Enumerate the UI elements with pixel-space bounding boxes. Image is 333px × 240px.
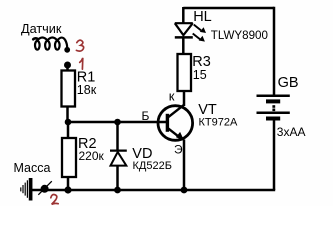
diode VD КД522Б	[110, 151, 127, 166]
svg-text:220к: 220к	[79, 149, 105, 163]
red handwritten 3	[76, 40, 83, 51]
node junction dot R1/R2/base	[65, 119, 72, 126]
inductor L sensor coil	[33, 38, 67, 50]
svg-text:3хАА: 3хАА	[277, 125, 306, 139]
wire battery bottom stub	[273, 120, 276, 190]
node junction dot VD bottom	[114, 187, 121, 194]
wire R2 top stub	[67, 122, 70, 138]
node junction dot emitter bottom	[181, 187, 188, 194]
wire VD bottom stub	[116, 166, 119, 190]
red handwritten 1	[80, 58, 83, 69]
svg-text:к: к	[169, 88, 175, 103]
svg-text:Э: Э	[174, 143, 183, 157]
svg-text:Датчик: Датчик	[21, 22, 62, 36]
wire R2 bottom stub	[67, 177, 70, 190]
collector line	[167, 105, 184, 118]
terminal slash at node 2	[38, 181, 52, 195]
wire VD top stub	[116, 122, 119, 151]
wire emitter to bottom rail	[183, 140, 186, 191]
emitter line with arrow	[167, 128, 181, 139]
node 1 junction dot (R1 top)	[64, 62, 71, 69]
wire R1 top stub	[66, 64, 69, 71]
transistor VT КТ972А	[158, 106, 193, 141]
base bar	[166, 114, 169, 132]
wire top: LED to battery	[183, 7, 274, 10]
LED arrows	[193, 25, 206, 42]
svg-text:TLWY8900: TLWY8900	[211, 29, 268, 42]
node junction dot R2 bottom	[64, 186, 71, 193]
svg-text:КД522Б: КД522Б	[133, 160, 172, 172]
LED HL TLWY8900	[175, 23, 193, 37]
wire R1 bottom stub	[66, 106, 69, 122]
svg-text:Масса: Масса	[14, 161, 51, 175]
node 2 terminal dot	[41, 185, 49, 193]
svg-text:15: 15	[193, 68, 207, 82]
resistor R2	[62, 138, 76, 177]
wire LED anode	[182, 7, 185, 23]
wire battery positive drop	[273, 7, 276, 95]
svg-text:Б: Б	[142, 109, 150, 123]
wire LED cathode to R3	[182, 38, 185, 55]
coil terminal dot (point 3)	[64, 47, 70, 53]
wire R3 to collector	[183, 91, 186, 106]
battery ellipsis dots	[272, 105, 275, 108]
red handwritten 2	[51, 195, 58, 205]
wire bottom rail	[32, 189, 275, 192]
wire base rail	[68, 121, 166, 124]
svg-text:HL: HL	[193, 9, 212, 25]
svg-text:18к: 18к	[77, 83, 97, 97]
resistor R3	[178, 54, 192, 91]
svg-text:КТ972А: КТ972А	[199, 117, 238, 129]
node junction dot VD top	[114, 119, 121, 126]
svg-text:GB: GB	[278, 75, 299, 91]
resistor R1	[62, 71, 76, 107]
